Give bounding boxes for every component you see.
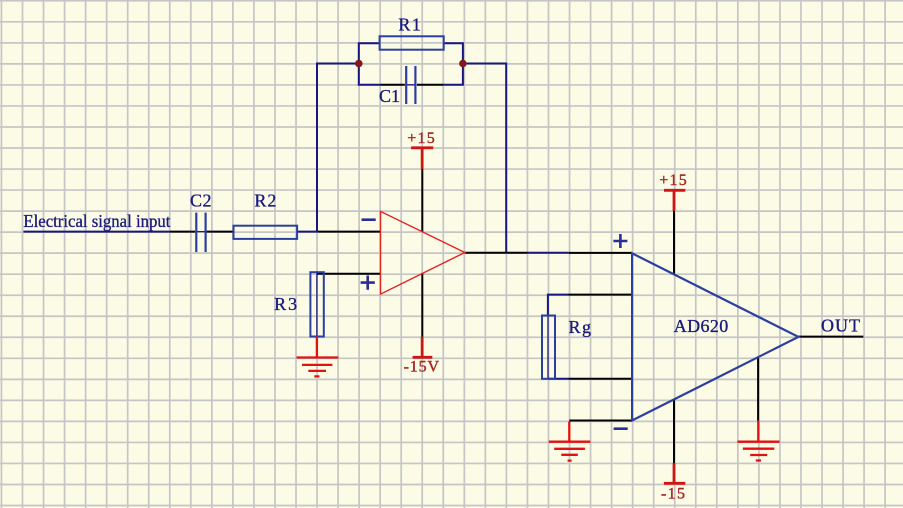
svg-text:+15: +15 <box>407 130 435 147</box>
svg-text:C2: C2 <box>190 190 212 210</box>
svg-text:-15V: -15V <box>404 359 440 376</box>
svg-text:C1: C1 <box>379 86 400 106</box>
svg-text:R2: R2 <box>254 190 276 210</box>
svg-text:R3: R3 <box>274 294 297 314</box>
svg-text:AD620: AD620 <box>674 316 729 336</box>
svg-text:Rg: Rg <box>569 317 592 337</box>
svg-text:R1: R1 <box>398 15 421 35</box>
svg-text:OUT: OUT <box>821 316 860 336</box>
svg-text:Electrical signal input: Electrical signal input <box>23 211 170 231</box>
svg-text:+15: +15 <box>659 172 687 189</box>
svg-text:-15: -15 <box>661 485 685 502</box>
